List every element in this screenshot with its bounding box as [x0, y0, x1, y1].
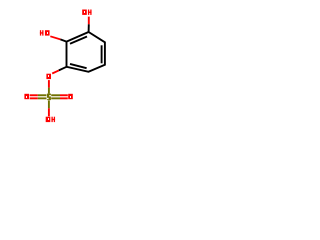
double bond inner line C1=C2 (top-left edge)	[70, 37, 87, 44]
bond C2-OH left, red half near O	[50, 36, 60, 39]
bond S-OH bottom, red half near O	[48, 108, 50, 116]
double bond S=O left, upper line red half	[30, 94, 38, 96]
bond C1-OH top, black half near ring	[88, 24, 90, 32]
bond C3-O ester, red half near O	[52, 70, 59, 73]
double bond S=O right, upper line olive half	[51, 94, 60, 96]
bond C3-O ester, black half near ring	[59, 67, 67, 71]
atom label O right	[68, 94, 73, 99]
double bond S=O right, lower line red half	[60, 97, 68, 99]
double bond S=O left, upper line olive half	[38, 94, 47, 96]
atom label OH bottom: O glyph	[46, 117, 51, 122]
bond C1-OH top, red half near O	[88, 17, 90, 25]
double bond S=O left, lower line olive half	[38, 97, 47, 99]
atom label OH bottom: H glyph	[51, 117, 55, 122]
bond O-S, olive half near S	[48, 88, 50, 94]
benzene ring outline	[67, 32, 105, 72]
double bond S=O left, lower line red half	[30, 97, 38, 99]
atom label HO left: O glyph	[45, 30, 50, 35]
double bond S=O right, lower line olive half	[51, 97, 60, 99]
atom label O left	[24, 94, 29, 99]
atom label S	[47, 94, 51, 101]
double bond inner line C5=C6 (right edge)	[101, 45, 103, 63]
atom label HO left: H glyph	[40, 30, 44, 35]
atom label OH top: O glyph	[82, 10, 87, 15]
bond S-OH bottom, olive half near S	[48, 100, 50, 108]
background	[0, 0, 130, 130]
bond C2-OH left, black half near ring	[60, 39, 66, 41]
atom label O ester	[46, 74, 51, 79]
bond O-S, red half near O	[48, 80, 50, 88]
atom label OH top: H glyph	[88, 10, 92, 15]
double bond inner line C3=C4 (bottom-left edge)	[70, 64, 87, 68]
double bond S=O right, upper line red half	[60, 94, 68, 96]
